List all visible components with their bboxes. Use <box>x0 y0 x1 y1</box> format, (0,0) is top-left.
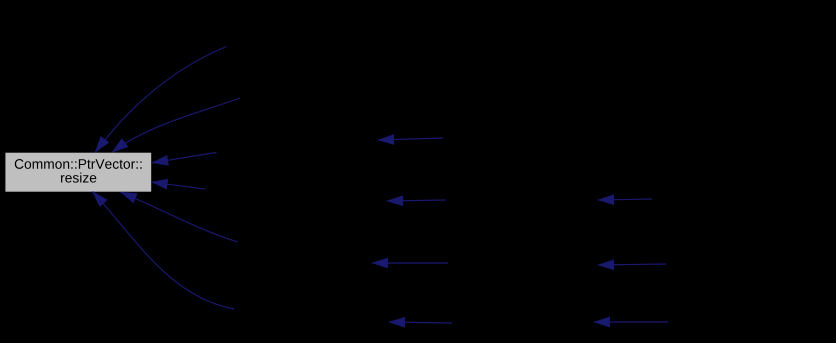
edge 5: caller node row5 -> resize (into bottom edge) <box>121 192 238 242</box>
edge B: col3 row2 -> col2 row2 <box>387 200 446 201</box>
edge 4: caller node row4 -> resize (into right edge) <box>152 182 206 189</box>
edge A: col3 row1 -> col2 row1 <box>378 138 443 140</box>
edge E: col4 row2 -> col3 row2 <box>598 199 652 200</box>
edge C: col3 row3 -> col2 row3 <box>372 262 448 264</box>
edge D: col3 row4 -> col2 row4 <box>389 322 452 323</box>
edge G: col4 row4 -> col3 row4 <box>594 321 668 323</box>
edge F: col4 row3 -> col3 row3 <box>598 264 666 265</box>
edge 1: caller node row1 -> resize (curved into top edge) <box>95 47 226 153</box>
node label line 1: Common::PtrVector:: <box>15 159 142 169</box>
edge 6: caller node row6 -> resize (curved into bottom edge) <box>93 192 234 309</box>
node: Common::PtrVector::resize (grey central node) <box>5 153 151 192</box>
edge 3: caller node row3 -> resize (into right edge) <box>152 153 217 163</box>
node box fill <box>5 153 151 192</box>
edge 2: caller node row2 -> resize (curved into top edge) <box>112 98 240 152</box>
node label line 2: resize <box>61 173 96 183</box>
